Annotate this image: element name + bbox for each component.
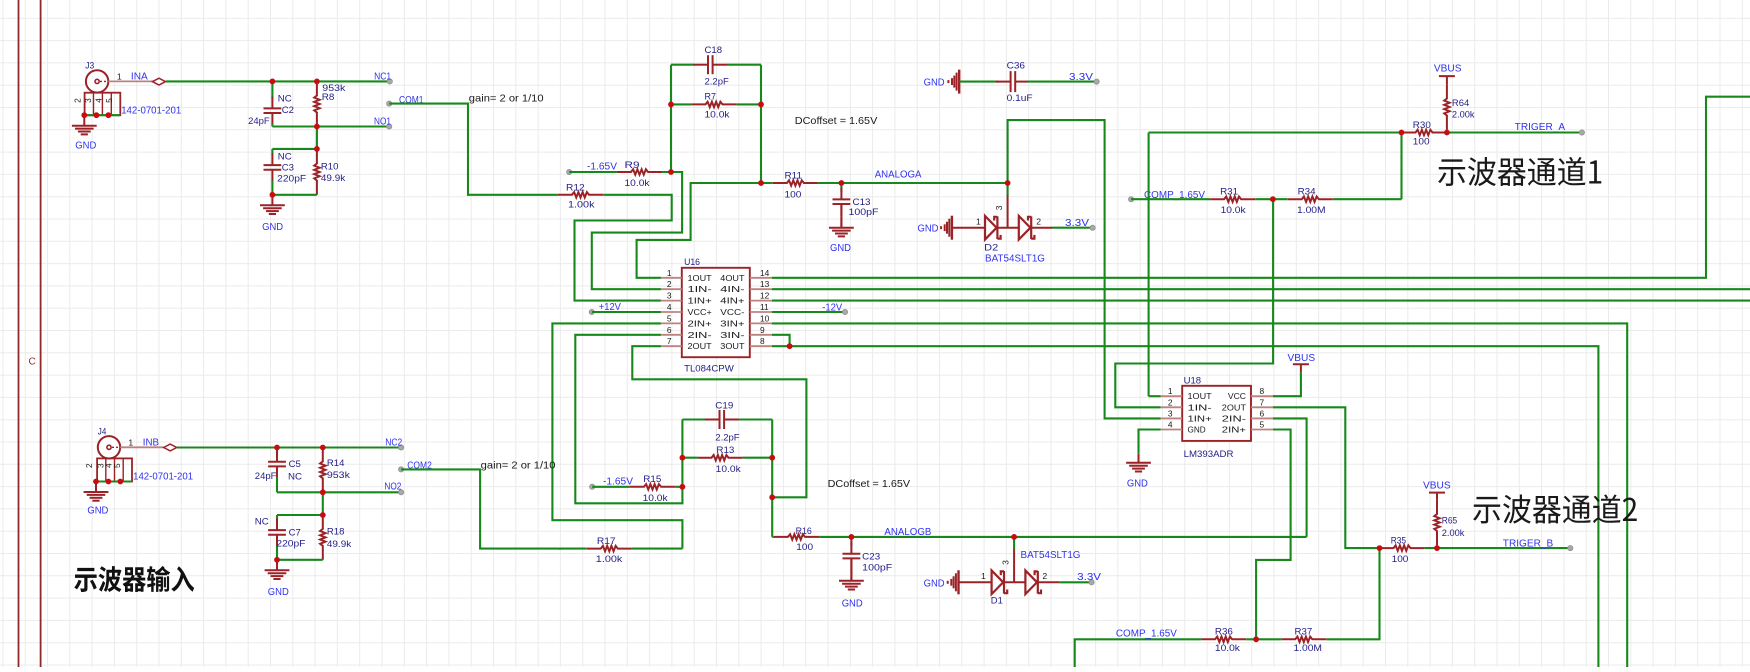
svg-text:5: 5 [104, 98, 114, 103]
wire COMP row channel A [1131, 198, 1401, 200]
junction dot [106, 112, 112, 118]
pin end -1.65V (channel B) [590, 484, 595, 489]
svg-text:BAT54SLT1G: BAT54SLT1G [1021, 550, 1081, 561]
pin end NO1 [387, 124, 392, 129]
wire R9 node to U16 pin2 (1IN-) [592, 172, 682, 289]
wire U16 pin6 2IN- from R15 node [575, 335, 682, 504]
svg-text:TRIGER_A: TRIGER_A [1515, 122, 1566, 133]
U16 pin 3 (1IN+) [661, 300, 682, 302]
junction dot [270, 79, 276, 85]
sheet border line left inner [40, 0, 42, 667]
svg-text:100pF: 100pF [849, 207, 879, 217]
ground symbol below C3 [260, 195, 285, 214]
svg-text:R12: R12 [566, 182, 585, 192]
svg-text:R14: R14 [327, 458, 345, 468]
resistor R30 100 [1401, 131, 1446, 134]
svg-text:BAT54SLT1G: BAT54SLT1G [985, 253, 1045, 264]
svg-text:14: 14 [760, 268, 770, 278]
svg-text:100: 100 [796, 542, 813, 552]
svg-text:1: 1 [976, 217, 981, 227]
pin end NC2 [399, 445, 404, 450]
svg-text:3IN+: 3IN+ [720, 318, 744, 328]
svg-text:10.0k: 10.0k [625, 178, 650, 188]
resistor R34 1.00M [1288, 198, 1333, 201]
svg-text:2OUT: 2OUT [688, 341, 712, 351]
svg-text:4OUT: 4OUT [720, 273, 744, 283]
pin end NO2 [399, 490, 404, 495]
resistor R9 10.0k [617, 170, 662, 173]
U18 pin 3 (1IN+) [1161, 417, 1183, 419]
junction dot [1011, 534, 1017, 540]
wire J4 shield to ground rail [96, 480, 132, 482]
wire +12V to U16 VCC+ [592, 311, 661, 313]
svg-text:2: 2 [1036, 217, 1041, 227]
resistor R11 100 [761, 182, 841, 184]
svg-text:GND: GND [842, 599, 863, 610]
pin end TRIGER_A [1579, 130, 1584, 135]
svg-text:1: 1 [128, 437, 133, 447]
svg-text:R9: R9 [625, 160, 640, 170]
capacitor C23 100pF branch [850, 537, 852, 546]
svg-text:J4: J4 [98, 426, 107, 436]
svg-text:1IN-: 1IN- [1188, 402, 1213, 412]
svg-text:COMP_1.65V: COMP_1.65V [1116, 629, 1177, 640]
ground bar symbol at D1 [947, 570, 959, 594]
svg-text:142-0701-201: 142-0701-201 [133, 471, 193, 482]
junction dot [1444, 130, 1450, 136]
capacitor C13 100pF branch [840, 183, 842, 190]
pin end -12V [842, 309, 847, 314]
svg-text:U18: U18 [1184, 376, 1202, 386]
U18 pin 4 (GND) [1161, 429, 1183, 431]
junction dot [314, 124, 320, 130]
wire U18 pin4 to ground [1139, 430, 1161, 454]
wire INA to NC1 [166, 80, 390, 82]
svg-text:C7: C7 [289, 528, 301, 538]
junction dot [94, 112, 100, 118]
svg-text:LM393ADR: LM393ADR [1184, 449, 1234, 459]
U16 pin 5 (2IN+) [661, 322, 682, 324]
resistor R36 10.0k [1201, 638, 1246, 641]
svg-text:5: 5 [1260, 420, 1265, 430]
svg-text:3OUT: 3OUT [720, 341, 744, 351]
svg-text:1OUT: 1OUT [1188, 391, 1212, 401]
ground symbol for J3 [72, 115, 97, 134]
wire VBUS to U18 pin8 [1273, 372, 1301, 396]
wire R34 up to R30 node [1400, 133, 1402, 200]
J4 pin 1 [120, 446, 164, 448]
junction dot [758, 102, 764, 108]
U18 pin 5 (2IN+) [1251, 429, 1273, 431]
connector J3 (BNC) symbol [86, 70, 108, 92]
svg-text:49.9k: 49.9k [327, 539, 352, 549]
svg-text:24pF: 24pF [255, 471, 277, 481]
svg-text:J3: J3 [85, 61, 94, 71]
svg-text:C36: C36 [1007, 61, 1025, 71]
pin end COM1 [387, 101, 392, 106]
wire R8 bottom to R10 top [316, 127, 318, 149]
pin end COMP_1.65V channel A [1129, 197, 1134, 202]
wire R37 row to TRIGER_B riser [1256, 548, 1379, 639]
svg-text:C2: C2 [282, 105, 294, 115]
svg-text:8: 8 [760, 336, 765, 346]
wire R65 node to TRIGER_B [1437, 547, 1570, 549]
capacitor C18 2.2pF top branch [671, 64, 694, 66]
ground bar symbol at D2 [940, 216, 952, 240]
junction dot [1005, 180, 1011, 186]
feedback block right leg [760, 65, 762, 183]
wire output node to U16 pin1 (1OUT) [637, 183, 761, 278]
capacitor C5 branch wire [276, 448, 278, 456]
svg-text:3.3V: 3.3V [1065, 218, 1090, 229]
svg-text:ANALOGA: ANALOGA [875, 170, 922, 181]
svg-text:C: C [29, 357, 36, 368]
svg-text:GND: GND [1188, 425, 1206, 435]
wire COM1 to R12 [389, 104, 562, 195]
svg-text:gain= 2 or 1/10: gain= 2 or 1/10 [469, 93, 544, 104]
svg-text:0.1uF: 0.1uF [1007, 93, 1033, 103]
svg-text:VCC: VCC [1228, 391, 1246, 401]
svg-text:VBUS: VBUS [1288, 353, 1316, 364]
svg-text:5: 5 [112, 463, 122, 468]
resistor R16 100 [772, 536, 851, 538]
svg-text:GND: GND [830, 243, 851, 254]
resistor R15 10.0k [630, 485, 675, 488]
wire INB to NC2 [177, 446, 401, 448]
junction dot [93, 479, 99, 485]
ground symbol below C23 [839, 570, 864, 589]
svg-text:13: 13 [760, 279, 770, 289]
wire U16 pin5 2IN+ from R17 node [552, 323, 682, 548]
svg-text:100: 100 [785, 190, 802, 200]
U16 pin 14 (4OUT) [750, 277, 772, 279]
capacitor C36 0.1uF [996, 81, 1011, 83]
junction dot [106, 479, 112, 485]
svg-text:220pF: 220pF [277, 173, 306, 183]
svg-text:NC: NC [255, 517, 269, 527]
svg-text:R64: R64 [1452, 98, 1469, 108]
svg-text:NC1: NC1 [374, 71, 391, 82]
wire U18 pin7 2OUT down to TRIGER_B row [1273, 407, 1380, 548]
svg-text:-1.65V: -1.65V [587, 161, 617, 172]
D2 cathode lead to 3.3V [1031, 227, 1052, 229]
wire C3 top rail [272, 148, 317, 150]
junction dot [1399, 130, 1405, 136]
U16 pin 7 (2OUT) [661, 345, 682, 347]
capacitor C19 2.2pF top branch [682, 418, 705, 420]
svg-text:1: 1 [981, 571, 986, 581]
junction dot [1377, 545, 1383, 551]
svg-text:9: 9 [760, 325, 765, 335]
svg-text:INB: INB [143, 438, 160, 449]
junction dot [81, 112, 87, 118]
wire U16 VCC- to -12V [772, 311, 845, 313]
svg-text:24pF: 24pF [248, 116, 270, 126]
svg-text:NO1: NO1 [374, 116, 391, 127]
ground symbol for J4 [84, 482, 109, 501]
wire U16 pin10 3IN+ down right [772, 323, 1627, 667]
capacitor C7 220pF [276, 515, 278, 521]
junction dot [680, 455, 686, 461]
svg-text:1: 1 [117, 71, 122, 81]
junction dot [314, 79, 320, 85]
wire down to U18 pin1 [1148, 133, 1150, 397]
svg-text:DCoffset = 1.65V: DCoffset = 1.65V [795, 116, 878, 127]
wire ANALOGA node up-and-over to U18 pin3 [1008, 120, 1161, 418]
wire U16 pin14 4OUT long loop to right edge [772, 97, 1750, 278]
svg-text:GND: GND [924, 578, 945, 589]
resistor R17 1.00k [558, 548, 632, 550]
svg-text:2.00k: 2.00k [1452, 110, 1475, 120]
svg-text:3: 3 [994, 205, 1004, 210]
junction dot [1270, 196, 1276, 202]
svg-text:TRIGER_B: TRIGER_B [1503, 538, 1554, 549]
U16 pin 11 (VCC-) [750, 311, 772, 313]
wire R12 to U16 pin3 (1IN+) [575, 195, 672, 301]
svg-text:2: 2 [73, 98, 83, 103]
svg-text:-12V: -12V [822, 302, 842, 313]
svg-text:GND: GND [918, 224, 939, 235]
ground symbol below C7 [265, 560, 290, 579]
U16 pin 9 (3IN-) [750, 334, 772, 336]
resistor R14 953k vertical [322, 448, 324, 493]
junction dot [668, 169, 674, 175]
svg-text:R18: R18 [327, 527, 345, 537]
svg-text:3.3V: 3.3V [1077, 572, 1102, 583]
svg-text:C23: C23 [862, 552, 880, 562]
feedback block right leg [771, 420, 773, 537]
svg-text:142-0701-201: 142-0701-201 [121, 106, 181, 117]
svg-text:GND: GND [75, 141, 96, 152]
junction dot [787, 343, 793, 349]
svg-text:NO2: NO2 [384, 482, 401, 493]
svg-text:C5: C5 [289, 459, 301, 469]
junction dot [270, 192, 276, 198]
resistor R10 49.9k vertical [316, 149, 318, 195]
pin end 3.3V at D2 [1090, 225, 1095, 230]
junction dot [274, 445, 280, 451]
capacitor C2 [264, 97, 282, 125]
D1 anode lead [959, 581, 992, 583]
svg-text:2.00k: 2.00k [1442, 528, 1465, 538]
U18 pin 1 (1OUT) [1161, 395, 1183, 397]
svg-text:R8: R8 [322, 92, 335, 102]
svg-text:R34: R34 [1298, 187, 1316, 197]
junction dot [769, 494, 775, 500]
wire U18 pin1 stub [1149, 395, 1161, 397]
svg-text:R37: R37 [1295, 627, 1313, 637]
ground symbol below C13 [829, 217, 854, 236]
junction dot [117, 479, 123, 485]
svg-text:R13: R13 [716, 445, 734, 455]
U16 pin 8 (3OUT) [750, 345, 772, 347]
svg-text:953k: 953k [327, 470, 350, 480]
svg-text:3: 3 [83, 98, 93, 103]
op-amp U16 TL084CPW body [682, 268, 750, 357]
sheet border line left outer [18, 0, 20, 667]
resistor R37 1.00M [1281, 638, 1326, 641]
svg-text:NC: NC [278, 93, 292, 103]
junction dot [668, 102, 674, 108]
wire ANALOGA row [841, 182, 1007, 184]
svg-text:1IN+: 1IN+ [1188, 413, 1212, 423]
svg-text:VCC+: VCC+ [688, 307, 712, 317]
svg-text:3.3V: 3.3V [1069, 72, 1094, 83]
D2 diode b [1019, 216, 1035, 240]
J3 shield box with pins 2-5 [85, 93, 121, 116]
wire -1.65V to R15 [592, 486, 682, 488]
junction dot [849, 534, 855, 540]
svg-text:2: 2 [1168, 397, 1173, 407]
ground symbol below U18 [1126, 454, 1151, 472]
wire U16 pin13 4IN- to right edge [772, 288, 1750, 290]
U16 pin 12 (4IN+) [750, 300, 772, 302]
svg-text:R17: R17 [597, 536, 616, 546]
resistor R12 1.00k [558, 194, 603, 196]
svg-text:49.9k: 49.9k [321, 173, 346, 183]
wire C3/R10 bottom rail [272, 194, 317, 196]
svg-text:C19: C19 [715, 401, 733, 411]
wire COMP_1.65V channel B row [1075, 639, 1256, 667]
svg-text:2IN+: 2IN+ [688, 318, 712, 328]
D1 center node pin 3 [1013, 549, 1015, 583]
svg-text:1: 1 [667, 268, 672, 278]
svg-text:7: 7 [667, 336, 672, 346]
J3 pin 1 [108, 80, 164, 82]
resistor R35 100 [1380, 547, 1438, 549]
svg-text:C13: C13 [853, 197, 871, 207]
svg-text:3IN-: 3IN- [720, 330, 745, 340]
svg-text:GND: GND [268, 587, 289, 598]
svg-text:4: 4 [93, 98, 103, 103]
svg-text:100: 100 [1392, 554, 1409, 564]
junction dot [680, 484, 686, 490]
pin end -1.65V (channel A) [567, 169, 572, 174]
J4 shield box with pins 2-5 [97, 458, 132, 481]
capacitor C3 [271, 149, 273, 155]
title text oscilloscope input [74, 566, 194, 592]
wire ANALOGB row to U18 pin6 riser [851, 536, 1306, 538]
svg-text:8: 8 [1260, 386, 1265, 396]
title text oscilloscope channel 1 [1438, 157, 1601, 186]
svg-text:7: 7 [1260, 397, 1265, 407]
pin end 3.3V at D1 [1089, 580, 1094, 585]
svg-text:2IN-: 2IN- [688, 330, 713, 340]
feedback block C18/R7 left leg [670, 65, 672, 172]
svg-text:GND: GND [87, 506, 108, 517]
wire U18 pin5 2IN+ down to R36/R37 node [1256, 430, 1291, 640]
svg-text:GND: GND [262, 222, 283, 233]
svg-text:2: 2 [1042, 571, 1047, 581]
wire U16 pin7 2OUT loop to C19/R13 right node [632, 346, 806, 497]
pin end +12V [589, 309, 594, 314]
U18 pin 6 (2IN-) [1251, 417, 1273, 419]
svg-text:VBUS: VBUS [1434, 64, 1462, 75]
connector J4 (BNC) symbol [98, 436, 120, 458]
svg-text:3: 3 [667, 291, 672, 301]
svg-text:R10: R10 [321, 162, 339, 172]
svg-text:TL084CPW: TL084CPW [684, 363, 734, 373]
svg-text:-1.65V: -1.65V [603, 476, 633, 487]
svg-text:6: 6 [667, 325, 672, 335]
svg-text:11: 11 [760, 302, 769, 312]
svg-text:100pF: 100pF [862, 563, 892, 573]
svg-text:C18: C18 [705, 45, 723, 55]
resistor R31 10.0k [1210, 198, 1255, 201]
svg-text:C3: C3 [282, 163, 294, 173]
title text oscilloscope channel 2 [1473, 494, 1637, 523]
resistor R8 953k vertical [316, 81, 318, 126]
resistor R7 10.0k feedback [671, 103, 761, 105]
wire R14 bottom to R18 top [322, 492, 324, 515]
wire comparator output row to R30 [1149, 131, 1402, 133]
capacitor C2 branch wire [271, 81, 273, 98]
wire U18 pin6 2IN- down to ANALOGB [1273, 418, 1307, 537]
svg-text:1.00k: 1.00k [568, 200, 595, 210]
svg-text:R30: R30 [1413, 120, 1431, 130]
wire U16 pin12 4IN+ to right edge [772, 300, 1750, 302]
wire U18 pin2 to COMP_1.65V node [1115, 199, 1273, 407]
junction dot [1434, 545, 1440, 551]
svg-text:3: 3 [1000, 560, 1010, 565]
svg-text:4: 4 [667, 302, 672, 312]
junction dot [274, 557, 280, 563]
wire C7 top rail [277, 514, 323, 516]
resistor R13 10.0k feedback [682, 457, 772, 459]
svg-text:R11: R11 [785, 171, 803, 181]
pin end NC1 [387, 79, 392, 84]
svg-text:D2: D2 [984, 243, 998, 253]
U18 pin 8 (VCC) [1251, 395, 1273, 397]
wire R64 node to TRIGER_A [1447, 131, 1582, 133]
junction dot [320, 445, 326, 451]
svg-text:3: 3 [1168, 408, 1173, 418]
D2 anode lead [952, 227, 985, 229]
svg-text:1OUT: 1OUT [688, 273, 712, 283]
U18 pin 7 (2OUT) [1251, 406, 1273, 408]
svg-text:U16: U16 [684, 257, 700, 267]
D1 diode b [1025, 571, 1041, 595]
svg-text:VCC-: VCC- [720, 307, 744, 317]
svg-text:2: 2 [667, 279, 672, 289]
wire NO1 row [272, 125, 389, 127]
ground bar symbol at C36 [947, 70, 959, 94]
wire J3 shield to ground rail [84, 114, 120, 116]
pin end COM2 [399, 467, 404, 472]
resistor R64 2.00k vertical [1446, 76, 1448, 132]
pin end 3.3V at C36 [1094, 79, 1099, 84]
capacitor C5 24pF [268, 450, 286, 478]
wire C36 to 3.3V [1028, 81, 1097, 83]
svg-text:INA: INA [131, 72, 148, 83]
U16 pin 6 (2IN-) [661, 334, 682, 336]
svg-text:1.00k: 1.00k [596, 554, 623, 564]
junction dot [839, 180, 845, 186]
wire C7/R18 bottom rail [277, 559, 323, 561]
svg-text:2: 2 [84, 463, 94, 468]
no-ERC marker on INB [164, 444, 177, 451]
svg-text:VBUS: VBUS [1423, 481, 1451, 492]
svg-text:R7: R7 [705, 91, 717, 101]
svg-text:DCoffset = 1.65V: DCoffset = 1.65V [828, 479, 911, 490]
junction dot [320, 489, 326, 495]
comparator U18 LM393ADR body [1182, 386, 1251, 441]
U16 pin 1 (1OUT) [661, 277, 682, 279]
svg-text:10: 10 [760, 313, 770, 323]
U16 pin 4 (VCC+) [661, 311, 682, 313]
resistor R18 49.9k vertical [322, 515, 324, 560]
pin end TRIGER_B [1568, 546, 1573, 551]
